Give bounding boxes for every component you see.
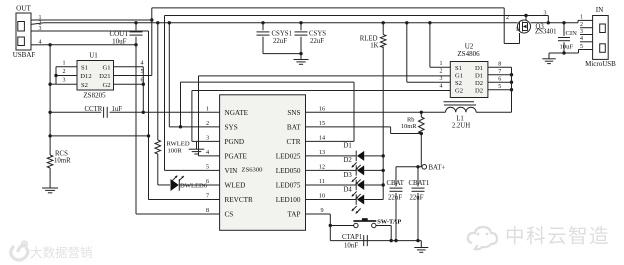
capacitor CSYS 22uF bbox=[295, 23, 327, 54]
node junction SYS riser on bus3 bbox=[168, 21, 171, 24]
svg-text:CSYS: CSYS bbox=[309, 31, 326, 38]
node junction Q3 on bus2 bbox=[524, 14, 527, 17]
svg-text:2.2UH: 2.2UH bbox=[452, 122, 470, 129]
node junction gnd rail x=50 bbox=[48, 43, 51, 46]
wire LED025 row bbox=[306, 155, 384, 157]
node junction U2 S1 riser on bus3 bbox=[428, 21, 431, 24]
svg-text:CS: CS bbox=[225, 211, 234, 219]
wire U2 G1 gate line y=75.9 bbox=[199, 75, 451, 77]
svg-text:4: 4 bbox=[141, 60, 144, 66]
J1 pin 1 stub bbox=[31, 15, 44, 21]
svg-text:10: 10 bbox=[319, 193, 325, 200]
svg-text:U1: U1 bbox=[89, 52, 98, 60]
wire U2 pin6 stub bbox=[488, 76, 512, 82]
svg-text:3: 3 bbox=[206, 135, 209, 142]
svg-text:S1: S1 bbox=[81, 65, 88, 72]
node junction COUT top on bus3 bbox=[134, 21, 137, 24]
svg-text:2: 2 bbox=[63, 69, 66, 75]
wire bottom rail y=240.6 bbox=[330, 240, 421, 242]
svg-text:4: 4 bbox=[39, 39, 42, 45]
svg-text:D3: D3 bbox=[344, 172, 353, 179]
wire link to U1 pins bbox=[50, 83, 56, 85]
node junction button drop on rail bbox=[390, 239, 393, 242]
wire BAT jog bbox=[306, 127, 422, 134]
svg-text:CIN: CIN bbox=[566, 30, 578, 37]
capacitor CBAT 22uF bbox=[387, 167, 405, 241]
J1 pin 2 stub bbox=[31, 20, 44, 26]
wire U2 pin8 stub bbox=[488, 61, 512, 67]
svg-text:CCTR: CCTR bbox=[85, 106, 103, 113]
svg-text:NGATE: NGATE bbox=[225, 109, 249, 117]
capacitor CSYS1 22uF bbox=[257, 23, 292, 54]
svg-text:5: 5 bbox=[141, 69, 144, 75]
svg-text:2: 2 bbox=[580, 22, 583, 28]
capacitor CIN 10uF bbox=[558, 23, 577, 53]
node junction SYS/CTR link bbox=[179, 125, 182, 128]
svg-text:11: 11 bbox=[319, 178, 325, 185]
svg-text:S1: S1 bbox=[455, 65, 462, 72]
svg-text:7: 7 bbox=[206, 193, 209, 200]
wire SNS to L1 bbox=[306, 111, 446, 113]
watermark logo bottom-right bbox=[468, 227, 497, 249]
wire Rb to BAT+ node bbox=[420, 134, 422, 167]
ground bottom right bbox=[414, 241, 428, 253]
wire OUT pin4 (gnd) rail bbox=[44, 44, 136, 46]
node junction U2 D bus row 5 bbox=[510, 88, 513, 91]
svg-text:CBAT1: CBAT1 bbox=[409, 180, 430, 187]
watermark logo bottom-left bbox=[11, 241, 28, 260]
svg-text:BAT: BAT bbox=[287, 123, 301, 131]
svg-text:BAT+: BAT+ bbox=[429, 164, 446, 171]
svg-text:15: 15 bbox=[319, 120, 325, 127]
dual MOSFET U1 ZS8205 bbox=[77, 52, 114, 100]
svg-text:3: 3 bbox=[39, 26, 42, 32]
resistor RCS 10mR bbox=[47, 151, 71, 169]
U2 pin2 number bbox=[440, 69, 443, 75]
J2 pin5 number bbox=[580, 44, 583, 50]
svg-text:8: 8 bbox=[206, 207, 209, 214]
svg-text:WLED: WLED bbox=[225, 182, 246, 190]
node junction bus2/bus3 bbox=[547, 21, 550, 24]
svg-text:S2: S2 bbox=[81, 82, 88, 89]
svg-text:LED075: LED075 bbox=[276, 182, 301, 190]
svg-text:3: 3 bbox=[580, 29, 583, 35]
svg-text:D2: D2 bbox=[475, 87, 483, 94]
node junction NGATE/CCTR bbox=[142, 111, 145, 114]
svg-text:D1: D1 bbox=[475, 72, 483, 79]
LED DWLED6 bbox=[171, 176, 208, 191]
svg-text:4: 4 bbox=[206, 149, 209, 156]
svg-text:5: 5 bbox=[206, 164, 209, 171]
svg-text:2: 2 bbox=[440, 69, 443, 75]
svg-text:5: 5 bbox=[580, 44, 583, 50]
wire PGND to IC pin3 bbox=[192, 140, 220, 142]
svg-text:22uF: 22uF bbox=[310, 38, 324, 45]
node junction U2 D bus row 6 bbox=[510, 81, 513, 84]
node junction Rb bottom bbox=[420, 132, 423, 135]
svg-text:IN: IN bbox=[596, 6, 604, 14]
node junction D1 anode bus bbox=[382, 154, 385, 157]
J1 pin 3 stub bbox=[31, 26, 44, 32]
resistor Rb 10mR bbox=[401, 112, 424, 133]
node junction CBAT bottom bbox=[394, 239, 397, 242]
wire U2 drain bus down to L1 bbox=[511, 67, 513, 112]
wire LED100 row bbox=[306, 198, 384, 200]
wire OUT pin3 to REVCTR riser bbox=[44, 31, 149, 200]
wire U2 S2 riser bbox=[407, 23, 451, 82]
dual MOSFET U2 ZS4806 bbox=[450, 43, 488, 98]
wire TAP drop bbox=[306, 214, 331, 241]
svg-text:10uF: 10uF bbox=[112, 38, 127, 46]
capacitor COUT 10uF bbox=[109, 23, 142, 46]
svg-text:3: 3 bbox=[544, 11, 547, 17]
svg-text:7: 7 bbox=[498, 69, 501, 75]
J2 pin 3 stub bbox=[580, 29, 593, 35]
svg-text:中科云智造: 中科云智造 bbox=[505, 226, 610, 248]
J2 pin1 number bbox=[580, 15, 583, 21]
svg-text:CBAT: CBAT bbox=[387, 180, 405, 187]
J2 pin 2 stub bbox=[580, 22, 593, 28]
node junction CBAT1 top bbox=[416, 165, 419, 168]
wire bus1 riser x=151.8 bbox=[151, 8, 153, 76]
wire bus2 drop to bus3 bbox=[544, 11, 549, 23]
node junction U1 pin6 / NGATE riser bbox=[142, 83, 145, 86]
ground below CSYS bbox=[294, 54, 309, 65]
J1 pin 4 stub bbox=[31, 39, 44, 45]
transistor Q3 ZS3401 (PMOS) bbox=[518, 20, 557, 36]
svg-text:1: 1 bbox=[440, 61, 443, 67]
wire U1 left pins vertical bbox=[55, 67, 57, 84]
inductor L1 2.2UH bbox=[444, 102, 477, 130]
node junction U1 pin2 bbox=[54, 74, 57, 77]
svg-text:PGATE: PGATE bbox=[225, 152, 248, 160]
node junction CSYS1 on bus3 bbox=[261, 21, 264, 24]
svg-text:D4: D4 bbox=[344, 186, 353, 193]
svg-text:CTR: CTR bbox=[287, 138, 301, 146]
svg-text:4: 4 bbox=[440, 84, 443, 90]
wire Q3 source to bus2 bbox=[525, 16, 527, 21]
node junction CIN top bbox=[562, 21, 565, 24]
svg-text:9: 9 bbox=[320, 207, 323, 214]
wire RCS to ground bbox=[49, 168, 51, 188]
ground on PGND bbox=[189, 141, 205, 154]
wire BAT+ rail bbox=[396, 166, 422, 168]
svg-text:13: 13 bbox=[319, 149, 325, 156]
wire DWLED6 to IC pin6 bbox=[179, 184, 219, 186]
wire OUT pin1 to bus1 riser bbox=[44, 19, 152, 21]
node junction CIN bottom bbox=[562, 51, 565, 54]
wire U1 pin4 (G1) to NGATE net bbox=[114, 60, 144, 112]
svg-text:D1: D1 bbox=[344, 143, 352, 150]
wire RCS vertical bbox=[49, 45, 51, 155]
svg-text:ZS8205: ZS8205 bbox=[83, 92, 106, 100]
pushbutton SW-TAP bbox=[353, 218, 401, 228]
svg-text:1: 1 bbox=[206, 106, 209, 113]
svg-text:LED100: LED100 bbox=[276, 196, 301, 204]
svg-text:2: 2 bbox=[206, 120, 209, 127]
svg-text:LED050: LED050 bbox=[276, 167, 301, 175]
J2 pin 4 stub bbox=[580, 36, 593, 42]
node junction RLED on bus3 bbox=[382, 21, 385, 24]
node junction CSYS on bus3 bbox=[299, 21, 302, 24]
watermark text bottom-right bbox=[505, 226, 610, 248]
svg-text:10uF: 10uF bbox=[560, 44, 574, 51]
node junction CBAT1 bottom bbox=[416, 239, 419, 242]
wire CTR to IC pin14 bbox=[306, 140, 355, 142]
svg-text:TAP: TAP bbox=[287, 211, 300, 219]
ground below CIN bbox=[542, 53, 556, 64]
wire CS riser x=136 bbox=[135, 45, 137, 214]
node junction RWLED riser on bus3 bbox=[156, 21, 159, 24]
node junction TAP/button bbox=[329, 224, 332, 227]
svg-text:S2: S2 bbox=[455, 80, 462, 87]
svg-text:LED025: LED025 bbox=[276, 152, 301, 160]
wire bus2 (VIN rail, y=15.5) bbox=[165, 15, 549, 17]
LED D3 bbox=[344, 172, 365, 199]
wire LED050 row bbox=[306, 169, 384, 171]
LED D2 bbox=[344, 157, 365, 184]
svg-text:2: 2 bbox=[506, 15, 509, 21]
svg-text:OUT: OUT bbox=[16, 5, 31, 13]
node BAT+ terminal bbox=[422, 164, 445, 171]
wire SYS to IC pin2 bbox=[169, 126, 219, 128]
IC U3 ZS6300 power bank controller bbox=[206, 95, 325, 231]
svg-text:G1: G1 bbox=[455, 72, 463, 79]
svg-text:SNS: SNS bbox=[287, 109, 300, 117]
connector J2 IN (MicroUSB) bbox=[585, 6, 616, 68]
node junction U2 D bus row 7 bbox=[510, 73, 513, 76]
wire REVCTR to IC pin7 bbox=[149, 198, 220, 200]
wire U2 pin5 stub bbox=[488, 84, 512, 90]
wire U2 S1 riser bbox=[430, 23, 450, 67]
wire L1 to U2 bus bbox=[476, 111, 511, 113]
svg-text:5: 5 bbox=[498, 84, 501, 90]
node junction COUT bottom / CS riser bbox=[134, 43, 137, 46]
svg-text:PGND: PGND bbox=[225, 138, 245, 146]
node junction CCTR left bbox=[48, 111, 51, 114]
svg-text:D12: D12 bbox=[80, 73, 91, 80]
svg-text:D2: D2 bbox=[475, 80, 483, 87]
svg-text:16: 16 bbox=[319, 106, 325, 113]
capacitor CBAT1 22uF bbox=[409, 167, 430, 241]
svg-text:MicroUSB: MicroUSB bbox=[585, 60, 616, 68]
wire RWLED riser bbox=[157, 23, 159, 140]
LED D1 bbox=[344, 143, 365, 170]
wire CS to IC pin8 bbox=[136, 213, 220, 215]
svg-text:REVCTR: REVCTR bbox=[225, 196, 254, 204]
wire U2 G2 gate line y=90.5 bbox=[192, 90, 450, 92]
svg-text:14: 14 bbox=[319, 135, 325, 142]
svg-text:SW-TAP: SW-TAP bbox=[377, 219, 401, 226]
svg-text:RCS: RCS bbox=[55, 151, 68, 158]
wire bus1 (U1 drain rail, y=8) bbox=[152, 7, 504, 9]
svg-text:D1: D1 bbox=[475, 65, 483, 72]
node junction D3 anode bus bbox=[382, 183, 385, 186]
wire CS-sense rail y=135.9 bbox=[50, 135, 149, 137]
Q3 pin1 number bbox=[516, 27, 519, 33]
node junction pin1/riser bbox=[150, 18, 153, 21]
node junction D2 anode bus bbox=[382, 169, 385, 172]
resistor RLED 1K bbox=[360, 23, 386, 50]
resistor RWLED 100R bbox=[155, 140, 190, 154]
connector J1 OUT (USB-A female) bbox=[13, 5, 36, 60]
svg-text:10mR: 10mR bbox=[54, 158, 71, 165]
svg-text:DWLED6: DWLED6 bbox=[180, 183, 208, 190]
node junction U2 S2 riser on bus3 bbox=[405, 21, 408, 24]
svg-text:22uF: 22uF bbox=[388, 195, 402, 202]
svg-text:ZS6300: ZS6300 bbox=[242, 167, 264, 174]
wire U1 pin3 stub bbox=[56, 78, 77, 85]
node junction rail/REVCTR riser bbox=[147, 134, 150, 137]
wire IN gnd rail bbox=[549, 50, 593, 54]
watermark text bottom-left bbox=[30, 245, 93, 260]
svg-text:VIN: VIN bbox=[225, 167, 239, 175]
svg-text:3: 3 bbox=[440, 76, 443, 82]
svg-text:大数据营销: 大数据营销 bbox=[30, 245, 93, 260]
node junction Rb top bbox=[420, 111, 423, 114]
wire bus3 (SYS/VBUS rail, y=22.8) bbox=[44, 20, 593, 22]
svg-text:3: 3 bbox=[63, 78, 66, 84]
svg-text:D2: D2 bbox=[344, 157, 353, 164]
wire LED bus x=383.2 bbox=[382, 47, 384, 200]
wire U1 pin1 stub bbox=[56, 60, 77, 67]
ground below RCS bbox=[42, 188, 58, 193]
svg-text:ZS3401: ZS3401 bbox=[535, 29, 557, 36]
wire CSYS bottom link bbox=[263, 53, 301, 55]
wire U2 pin7 stub bbox=[488, 69, 512, 75]
svg-text:1: 1 bbox=[580, 15, 583, 21]
svg-text:G2: G2 bbox=[102, 82, 110, 89]
wire to button left contact bbox=[330, 225, 353, 227]
svg-text:1K: 1K bbox=[370, 43, 378, 50]
node junction U1 link bbox=[48, 83, 51, 86]
wire button right contact drop bbox=[376, 226, 391, 241]
wire RWLED to DWLED6 bbox=[158, 154, 170, 185]
U2 pin4 number bbox=[440, 84, 443, 90]
svg-text:1: 1 bbox=[63, 60, 66, 66]
wire U2 G2 riser bbox=[191, 91, 193, 142]
svg-text:6: 6 bbox=[498, 76, 501, 82]
wire VIN riser from bus2 bbox=[164, 16, 166, 171]
wire PGATE to IC pin4 bbox=[199, 155, 220, 157]
Q3 pin2 number bbox=[506, 15, 509, 21]
svg-text:D21: D21 bbox=[99, 73, 110, 80]
LED D4 bbox=[344, 186, 365, 213]
wire Q3 gate feed from bus1 bbox=[504, 8, 519, 44]
svg-text:22uF: 22uF bbox=[273, 38, 287, 45]
wire U1 pin6 (G2) stub bbox=[114, 78, 144, 85]
wire CTR link over IC bbox=[181, 82, 355, 141]
capacitor CTAP1 10nF bbox=[342, 234, 367, 249]
wire LED075 row bbox=[306, 184, 384, 186]
wire VIN to IC pin5 bbox=[165, 169, 220, 171]
capacitor CCTR 1uF bbox=[50, 106, 143, 118]
svg-text:G1: G1 bbox=[102, 65, 110, 72]
node junction CSYS gnd bbox=[299, 52, 302, 55]
svg-text:6: 6 bbox=[206, 178, 209, 185]
svg-text:4: 4 bbox=[580, 36, 583, 42]
svg-text:USBAF: USBAF bbox=[13, 51, 36, 59]
svg-text:SYS: SYS bbox=[225, 123, 238, 131]
node junction y=135.9 rail bbox=[48, 134, 51, 137]
svg-text:100R: 100R bbox=[168, 147, 183, 154]
wire U2 G1 riser bbox=[198, 76, 200, 156]
svg-text:8: 8 bbox=[498, 61, 501, 67]
svg-text:1uF: 1uF bbox=[112, 106, 123, 113]
wire NGATE to IC pin1 bbox=[143, 111, 219, 113]
svg-text:CTAP1: CTAP1 bbox=[342, 234, 362, 241]
svg-text:CSYS1: CSYS1 bbox=[272, 31, 292, 38]
svg-text:22uF: 22uF bbox=[410, 195, 424, 202]
svg-text:12: 12 bbox=[319, 164, 325, 171]
svg-text:10nF: 10nF bbox=[344, 243, 358, 250]
svg-text:G2: G2 bbox=[455, 87, 463, 94]
svg-text:ZS4806: ZS4806 bbox=[457, 50, 480, 58]
wire U1 pin2 stub bbox=[56, 69, 77, 76]
svg-text:10mR: 10mR bbox=[401, 123, 417, 130]
wire U1 pin5 (D21) to bus1 riser bbox=[114, 69, 152, 76]
wire SYS riser bbox=[168, 23, 170, 127]
